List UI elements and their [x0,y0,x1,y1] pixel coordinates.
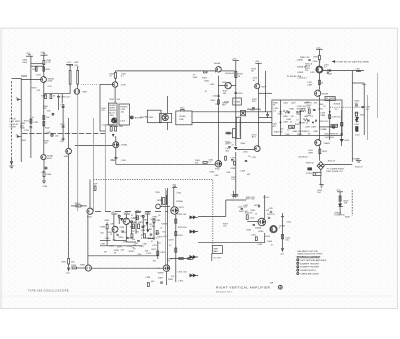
lower amp labels batch3 [110,223,166,238]
wire into deflection [318,146,320,161]
test point TP343 [130,116,141,119]
resistor R364 pair left [195,160,207,164]
labels V484B cathode cluster [297,106,307,113]
node junction circle mid [51,134,53,136]
dashed linkage graticule [351,190,353,216]
tube B386 gas diode [80,214,91,271]
transmission line upper pair [165,188,167,265]
svg-text:POWER SUPPLY: POWER SUPPLY [300,270,317,272]
wire V464A plate right [221,70,235,72]
label term set [222,102,228,106]
svg-text:B SWEEP TRIGGER: B SWEEP TRIGGER [300,267,319,269]
svg-text:MAG: MAG [213,250,218,253]
wire V484B cathode down [318,96,320,139]
label R343A [47,110,51,112]
lower amp resistor marks [121,231,145,242]
resistor R505 labels [355,101,361,105]
shield compartment box [236,117,240,138]
svg-text:R509 50: R509 50 [306,162,314,164]
label R461 cluster [204,80,219,105]
lower amp mid labels [160,239,174,253]
wire rung lower [31,65,44,67]
lower amp labels batch2 [100,213,161,248]
svg-text:TO CRT: TO CRT [213,257,221,259]
wire bottom interconnect [44,93,70,95]
wire bottom bus into V393B [92,268,164,269]
title RIGHT VERTICAL AMPLIFIER [216,285,282,289]
wire long top bus to V464 [116,71,216,73]
dashed linkage right [330,106,365,108]
connector J343 [140,117,148,119]
capacitor C482 to ground [259,112,272,118]
tube V343B [113,142,128,148]
delay line top tap [180,107,185,111]
svg-text:ROTATION: ROTATION [334,214,345,217]
wire feed aux box [225,132,232,134]
svg-text:C489A: C489A [297,58,304,61]
svg-text:6DK6: 6DK6 [258,231,264,233]
svg-text:100K: 100K [22,62,27,64]
wire C384 column [147,214,149,230]
output coupling column right [355,105,366,131]
resistor R334 [43,55,52,76]
wire plate drop x100 [100,85,105,131]
svg-text:DELAY: DELAY [179,115,186,118]
neon lamp B337 [74,89,88,95]
svg-text:C487 12: C487 12 [300,122,308,124]
tunnel diode box [160,113,172,122]
note to V464 label [193,75,199,79]
power label peaking top [66,62,79,67]
small box V409 [212,246,222,254]
svg-text:R394 16K: R394 16K [178,214,188,216]
V464 cathode marks [217,95,220,104]
lower amp junction rings [118,215,144,223]
resistor R474 label [251,68,257,72]
svg-text:ADJ: ADJ [252,136,256,139]
resistor R464 [235,72,244,78]
svg-text:V464A: V464A [214,62,221,65]
power bars lower amp row [111,211,151,215]
wire V393 cathode column [175,214,177,282]
wire L387 column [153,223,155,240]
title TYPE 555 [28,289,69,293]
cable shield box [147,110,161,123]
label L495 dmh [307,82,312,86]
svg-text:A SWEEP TRIGGER: A SWEEP TRIGGER [300,262,319,265]
svg-text:R377 100: R377 100 [246,199,256,201]
capacitor C384 cluster [140,226,148,236]
power +225 bar left [26,53,33,56]
svg-text:DEFL PLATE CRT: DEFL PLATE CRT [326,170,343,173]
note to delay line [287,75,302,78]
power +350 V393 feed [172,184,178,187]
tube V484A pentode [316,66,323,73]
fold crease line [2,295,396,297]
label L503 [308,150,313,154]
resistor R404 [245,212,253,219]
svg-text:R511 47: R511 47 [328,161,336,163]
svg-text:C343A: C343A [102,123,109,126]
label C364 [208,159,214,163]
note semiconductor types [297,250,323,256]
termination divider 2 [299,110,301,136]
resistor R351 bottom [62,259,76,275]
svg-text:TERM: TERM [157,200,163,202]
tube V393 [171,207,185,215]
resistor column left lower [100,222,108,237]
svg-text:DMH: DMH [307,84,312,86]
wire feed tube V383A [113,214,115,226]
left pot cluster [306,162,314,175]
boxed label L485 adj [289,125,295,128]
wire V383B below [125,225,127,243]
lower right extra labels [238,205,292,223]
V403 area labels [246,213,273,246]
wire cathode V334 long [68,154,70,258]
power +225 top right [316,47,323,55]
labels V484A upper cluster [297,57,311,74]
termination shield box [272,100,342,136]
label R484 under [274,131,284,133]
resistor R414 column [280,213,291,255]
capacitor C336 row on bus [60,104,66,141]
switch contact lower [16,134,22,137]
label R486 [293,131,303,133]
resistor R490 [313,56,320,60]
note ref line 1 [297,259,327,262]
resistor R463 on top bus [202,71,208,80]
svg-text:R485A: R485A [334,102,341,105]
svg-text:V403A: V403A [255,226,262,229]
resistor R336 [43,67,51,71]
svg-text:DL TERM: DL TERM [326,98,335,100]
power +350 channel3 [255,61,262,63]
termination interior labels row1 [283,102,318,104]
termination interior labels row4 [280,129,319,136]
wire channel2 vertical [235,61,237,147]
resistor cluster left of V484 cathode [307,109,316,117]
wire diamond to ground [320,170,322,185]
wire screen bus long left [77,94,79,211]
capacitor C474 label [252,78,258,82]
lower amp connector stubs [114,217,154,242]
svg-text:6.8K: 6.8K [226,172,231,174]
label C491 right [324,64,330,68]
switch box left section [108,103,117,125]
svg-text:POSN: POSN [306,173,312,175]
switch SW330 wafer dashed line [11,81,13,158]
label on lower bus [110,159,114,161]
delay line box DL340 [176,111,192,125]
label C333 [32,74,53,92]
svg-text:V393B: V393B [158,272,165,274]
wire graticule vertical [339,192,341,215]
resistor cluster R384 [131,222,143,233]
wire output row2 [198,233,265,243]
title plus marks [270,283,273,285]
wire gray right margin [367,95,369,140]
resistor R386 [71,265,85,269]
wire V343A cathode [114,87,116,103]
label L379 [93,183,98,190]
label C340 [46,132,60,137]
wire input to V333A grid [21,79,41,81]
label R512 mid right [355,166,363,168]
power +350 channel2 [232,58,239,60]
power +350 bar right bottom [355,159,362,162]
wire grid bus dotted [81,84,112,86]
diode arrow pair row4 [190,274,199,277]
note FROM PLUG-IN text block [10,119,21,129]
tube V383B [123,214,130,225]
big box lower left top edge [94,179,213,245]
boxed label comp adj [331,124,338,127]
switch actuator arrow and ground [10,158,14,169]
label R403 [251,210,271,212]
capacitor C376 ground [233,195,255,201]
svg-text:TO VERT SIG OUT (CATH FOLLOWER: TO VERT SIG OUT (CATH FOLLOWER) [335,60,369,63]
note ref line 5 [297,273,320,276]
tube V333B [41,155,54,160]
resistor R347 label [109,99,120,101]
diode D506 [339,204,343,207]
svg-text:2.2M: 2.2M [33,122,38,124]
svg-text:.6uH: .6uH [230,73,235,75]
termination divider 1 [280,100,282,136]
label C487 [300,122,308,124]
svg-text:RIGHT VERTICAL AMPLIFIER: RIGHT VERTICAL AMPLIFIER [216,286,271,290]
svg-text:4.7K: 4.7K [46,62,51,64]
svg-text:R404 1K: R404 1K [245,212,253,214]
wire DC bal line [22,132,105,134]
wire V474 plate right [259,92,272,94]
bottom coupling row [170,258,193,260]
CRT deflection plate symbol [317,161,336,170]
label R392 91K [168,258,174,262]
resistor R396 [175,235,184,252]
svg-text:+350 R504: +350 R504 [298,156,309,158]
tube V484C [315,140,331,146]
wire V393 feed from top [173,188,175,207]
wire TP tap [319,126,335,129]
wire channel3 vertical [258,63,260,145]
note ref line 3 [297,266,320,269]
tube V484B [315,90,329,96]
label L386 [150,217,158,229]
resistor network row [283,108,295,113]
switch contact upper [16,97,22,100]
fet box Q463 [240,110,255,116]
label R488 [302,131,310,133]
tube V335 lower left [87,208,93,219]
tube V374 [251,146,260,159]
tube V413 double [265,225,285,238]
svg-text:V484B: V484B [322,93,329,95]
svg-text:R488 39: R488 39 [302,131,310,133]
tube V464A [214,62,221,72]
wire screen bus right [104,126,106,212]
note to vert sig out [333,60,370,63]
dashed wire tube row [95,210,168,212]
wire long bus lower to V364 [116,163,215,165]
V403 small marks [253,217,271,240]
label R499 [320,121,330,123]
resistor R475 label [252,99,258,103]
power +500 bar [40,52,47,55]
termination small caps marks [288,111,317,129]
resistor R376 label [231,177,237,182]
lower amp extra micro labels [110,217,168,245]
wire gray far right [377,73,379,118]
wire R382 column lower [106,237,108,246]
wire V383A below [113,232,115,240]
dashed stub lower [132,238,158,248]
note reference diagrams header [297,255,321,258]
lower amp labels batch5 [104,215,161,256]
termination zigzag resistor 2 [303,118,309,121]
label dly adj [252,134,258,138]
inductor L338 right [77,67,79,89]
lower amp labels batch4 [105,238,149,253]
lower amp labels batch1 [119,218,164,245]
capacitor C492 on wire [327,69,333,75]
svg-text:CONN: CONN [10,126,16,128]
svg-text:SEMICONDUCTOR TYPES: SEMICONDUCTOR TYPES [297,254,323,256]
diode arrow pair row2 [190,230,199,233]
tube V474 [255,84,260,89]
ground V333B cathode [42,177,46,184]
wire cathode chain V333A [43,82,45,154]
label L396 224 [178,271,188,273]
resistor R391 bottom left [152,241,159,263]
wire channel2 lower [235,152,237,195]
resistor box R466 [224,98,241,105]
lower amp bottom cluster [145,276,183,286]
note ref line 2 [297,262,320,265]
note ref line 4 [297,269,317,272]
wire delay feed vertical [265,71,267,112]
V364 small marks [225,147,248,162]
tube V383A [108,226,118,234]
wire R385 column [135,212,137,233]
svg-text:+ C496 4.7: + C496 4.7 [297,78,308,80]
wire lower top rail [226,200,246,216]
switch box right section [119,104,130,125]
svg-text:R395 16K: R395 16K [178,227,188,229]
resistor R345 label [44,140,50,144]
tube V403 [255,218,266,233]
label below aux [225,141,231,145]
resistor R503 [319,149,328,154]
inductor L337 left [69,64,71,93]
svg-text:555 2301 1 OF 2: 555 2301 1 OF 2 [216,291,232,293]
ground top lower amp [232,191,236,198]
label R388 3K [114,250,120,254]
resistor R507 column [355,113,361,121]
wire vertical through delay area [167,96,169,130]
resistor R333 label [22,60,28,64]
resistor R335 [32,67,38,71]
wire into V484A [318,60,320,66]
svg-text:TO CRT: TO CRT [352,158,360,160]
svg-text:3.3K: 3.3K [137,254,142,256]
label to lower plate [326,169,344,173]
svg-text:SW: SW [270,283,273,285]
svg-text:C338 .001: C338 .001 [61,97,71,99]
diode D507 [355,124,361,136]
wire delay output lower [192,121,272,123]
svg-text:R499 120: R499 120 [320,121,330,123]
wire bias row lower [100,241,111,246]
transistor Q343 in box [111,118,116,123]
label L402 [254,205,260,208]
wire x2647 vertical [264,195,266,218]
switch frame bracket [12,76,28,162]
title sub line [216,291,232,293]
termination interior labels row2 [283,114,314,118]
svg-text:R484 120: R484 120 [274,131,284,133]
diode arrow pair row3 [190,256,199,259]
tube V393B [158,265,170,274]
wire anode feed V334 [68,118,70,148]
resistor R395 [175,227,188,236]
junction node small circle [52,113,54,115]
svg-text:R401 100: R401 100 [246,197,256,199]
resistor R338 [50,95,56,99]
wire V464 grid row [218,85,235,87]
svg-text:R500 TERM 93: R500 TERM 93 [325,133,340,135]
label +225 graticule [336,190,343,192]
label V484 left block [305,62,316,74]
capacitor C337 [60,124,66,127]
capacitor C390 top [155,192,166,205]
wire V464 chain down [217,76,219,161]
capacitor C331 [24,127,32,132]
label trace rotation [334,211,350,218]
svg-text:R412 1K: R412 1K [267,214,275,216]
power +350 bar right top [355,69,361,72]
resistor R394 [175,214,187,223]
svg-text:DMH: DMH [308,152,313,154]
wire V343A plate stub [115,78,117,82]
label R401 row [246,197,270,199]
svg-text:C498 120: C498 120 [332,116,342,118]
boxed label delay term [325,97,335,101]
components above V343B [109,125,117,137]
svg-text:V343B: V343B [121,145,128,147]
termination extra labels [273,102,340,131]
resistor R496 [319,80,324,84]
label R467 pair [223,91,229,95]
wire rung upper [31,63,44,65]
wire V343B vertical [115,136,117,164]
label C392 [176,192,183,203]
label L465 [222,82,227,84]
inductor L481 [300,108,305,111]
wire delay output upper [192,111,272,113]
label L491 [326,70,331,74]
diode D365 on channel2 [226,147,238,152]
diode arrow pair row1 [190,216,199,219]
label bias cluster [41,171,48,187]
node bias label [32,117,35,119]
svg-text:C500 .005: C500 .005 [325,137,335,139]
svg-text:V484B: V484B [324,143,331,145]
resistor R498 [329,115,342,119]
diode D501 [340,139,350,142]
wire x3416 vertical [341,110,343,146]
